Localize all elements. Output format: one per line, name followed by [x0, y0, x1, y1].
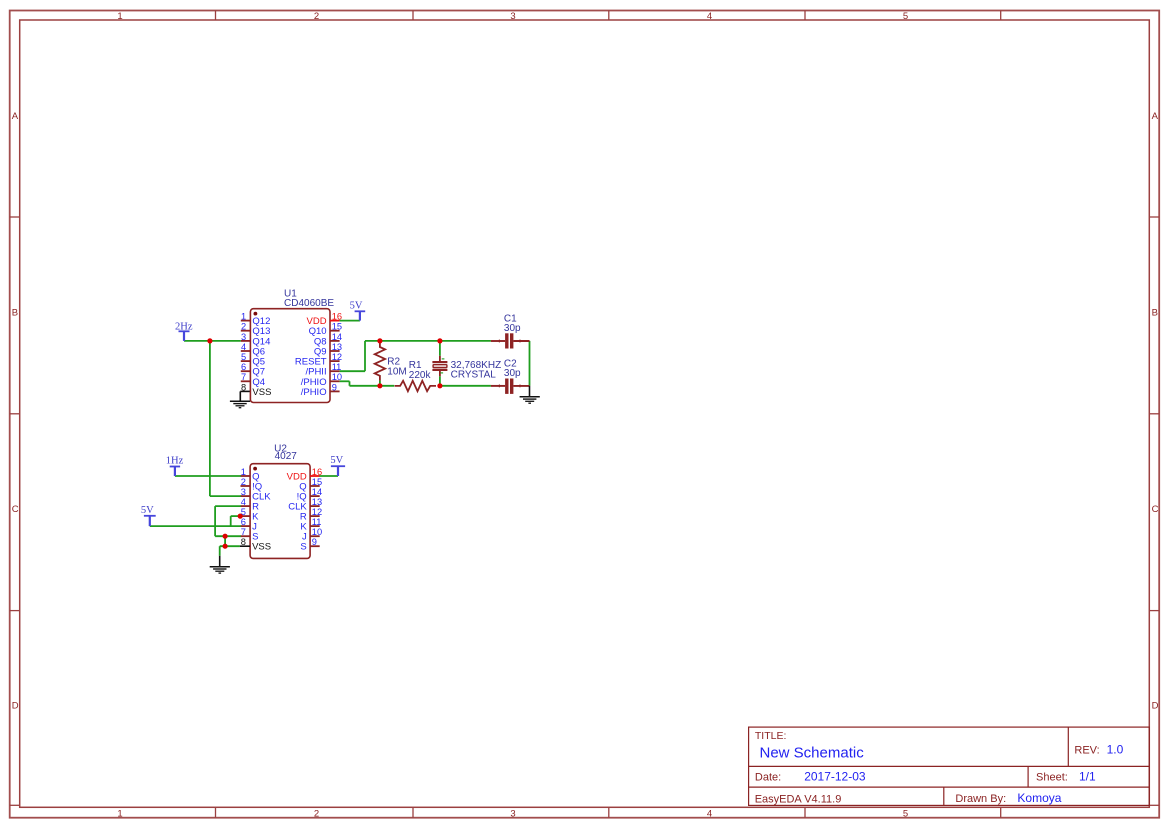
svg-text:11: 11 — [312, 517, 322, 527]
svg-text:9: 9 — [312, 537, 317, 547]
svg-text:2Hz: 2Hz — [175, 321, 193, 332]
svg-text:2: 2 — [314, 808, 319, 819]
svg-text:1/1: 1/1 — [1079, 770, 1096, 784]
svg-text:5V: 5V — [350, 301, 363, 312]
svg-text:4027: 4027 — [275, 451, 298, 462]
svg-text:14: 14 — [332, 332, 342, 342]
svg-text:13: 13 — [332, 342, 342, 352]
svg-text:New Schematic: New Schematic — [760, 745, 865, 762]
svg-text:13: 13 — [312, 497, 322, 507]
svg-text:/PHIO: /PHIO — [301, 387, 327, 398]
svg-text:10M: 10M — [387, 367, 406, 378]
svg-text:Sheet:: Sheet: — [1036, 772, 1068, 784]
svg-text:2: 2 — [241, 477, 246, 487]
svg-text:C: C — [12, 504, 19, 515]
svg-text:2: 2 — [241, 322, 246, 332]
svg-text:6: 6 — [241, 517, 246, 527]
svg-text:15: 15 — [312, 477, 322, 487]
svg-text:REV:: REV: — [1074, 744, 1099, 756]
svg-text:VSS: VSS — [252, 542, 271, 553]
svg-text:3: 3 — [241, 332, 246, 342]
svg-text:VSS: VSS — [252, 387, 271, 398]
svg-text:3: 3 — [241, 487, 246, 497]
svg-text:2: 2 — [314, 11, 319, 22]
svg-text:B: B — [1152, 308, 1158, 319]
svg-text:4: 4 — [707, 11, 712, 22]
svg-text:D: D — [1152, 701, 1159, 712]
svg-text:10: 10 — [312, 527, 322, 537]
svg-text:7: 7 — [241, 527, 246, 537]
svg-text:5: 5 — [241, 352, 246, 362]
svg-text:1: 1 — [117, 808, 122, 819]
svg-text:12: 12 — [312, 507, 322, 517]
svg-text:30p: 30p — [504, 323, 521, 334]
svg-text:TITLE:: TITLE: — [755, 730, 787, 742]
svg-text:B: B — [12, 308, 18, 319]
svg-text:7: 7 — [241, 372, 246, 382]
svg-text:EasyEDA V4.11.9: EasyEDA V4.11.9 — [755, 793, 842, 805]
svg-text:4: 4 — [241, 497, 246, 507]
svg-text:4: 4 — [241, 342, 246, 352]
svg-text:6: 6 — [241, 362, 246, 372]
svg-text:1: 1 — [241, 467, 246, 477]
svg-text:Drawn By:: Drawn By: — [955, 793, 1006, 805]
svg-text:1: 1 — [241, 312, 246, 322]
svg-text:Komoya: Komoya — [1017, 791, 1061, 805]
svg-text:CRYSTAL: CRYSTAL — [451, 370, 497, 381]
svg-text:5: 5 — [903, 11, 908, 22]
svg-text:220k: 220k — [409, 370, 432, 381]
svg-text:9: 9 — [332, 382, 337, 392]
svg-text:1Hz: 1Hz — [166, 455, 184, 466]
svg-text:A: A — [12, 111, 19, 122]
svg-text:A: A — [1152, 111, 1159, 122]
svg-text:S: S — [300, 542, 306, 553]
svg-text:C: C — [1152, 504, 1159, 515]
svg-text:1.0: 1.0 — [1107, 742, 1124, 756]
svg-text:12: 12 — [332, 352, 342, 362]
svg-text:D: D — [12, 701, 19, 712]
svg-text:CD4060BE: CD4060BE — [284, 298, 334, 309]
svg-text:4: 4 — [707, 808, 712, 819]
svg-text:Date:: Date: — [755, 772, 781, 784]
svg-text:2017-12-03: 2017-12-03 — [804, 770, 866, 784]
svg-text:3: 3 — [510, 808, 515, 819]
svg-text:1: 1 — [117, 11, 122, 22]
svg-text:5V: 5V — [330, 455, 343, 466]
svg-text:30p: 30p — [504, 368, 521, 379]
svg-text:15: 15 — [332, 322, 342, 332]
svg-text:3: 3 — [510, 11, 515, 22]
svg-text:14: 14 — [312, 487, 322, 497]
svg-text:5V: 5V — [141, 505, 154, 516]
svg-text:5: 5 — [903, 808, 908, 819]
